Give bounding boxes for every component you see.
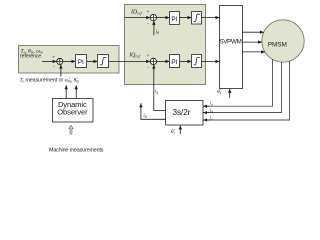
- svg-text:Te measurement or ω̂m, θ̂m: Te measurement or ω̂m, θ̂m: [20, 78, 80, 84]
- svg-text:PMSM: PMSM: [268, 42, 287, 49]
- svg-text:id: id: [156, 30, 159, 35]
- svg-text:reference: reference: [20, 54, 41, 60]
- svg-text:+: +: [52, 54, 55, 59]
- svg-text:PI: PI: [171, 16, 177, 23]
- svg-text:-: -: [147, 21, 149, 27]
- svg-text:Observer: Observer: [57, 107, 88, 116]
- svg-text:id: id: [143, 114, 146, 119]
- svg-text:ic: ic: [210, 116, 213, 121]
- svg-text:ia: ia: [210, 102, 213, 107]
- svg-text:θ̂r: θ̂r: [171, 129, 176, 135]
- svg-text:IQref: IQref: [128, 52, 140, 58]
- svg-text:PI: PI: [78, 59, 84, 66]
- svg-text:iq: iq: [155, 89, 158, 94]
- svg-text:SVPWM: SVPWM: [219, 38, 241, 45]
- svg-text:PI: PI: [171, 59, 177, 66]
- svg-text:-: -: [147, 65, 149, 71]
- svg-text:+: +: [147, 9, 150, 14]
- svg-text:ib: ib: [210, 108, 213, 113]
- svg-text:Machine measurements: Machine measurements: [49, 147, 104, 153]
- svg-text:-: -: [53, 64, 55, 70]
- svg-text:θ̂s: θ̂s: [217, 89, 222, 95]
- svg-text:IDref: IDref: [130, 9, 142, 15]
- svg-text:3s/2r: 3s/2r: [172, 107, 190, 117]
- svg-text:+: +: [147, 53, 150, 58]
